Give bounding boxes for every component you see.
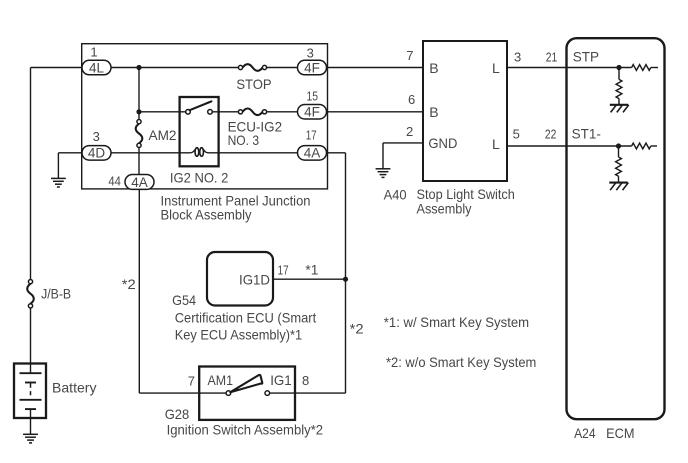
svg-text:Certification ECU (Smart: Certification ECU (Smart xyxy=(175,309,317,325)
svg-text:5: 5 xyxy=(513,126,520,141)
wire fuse to 4F 15 xyxy=(267,111,298,113)
svg-text:6: 6 xyxy=(408,92,415,107)
wire 4D to relay coil xyxy=(111,152,180,154)
wire AM2 vertical xyxy=(138,68,140,176)
fuse STOP xyxy=(238,64,266,71)
svg-text:*2: *2 xyxy=(350,320,364,336)
resistor STP horizontal xyxy=(632,65,658,71)
label A24 ECM xyxy=(574,425,634,441)
connector 4A pin 17 xyxy=(298,128,327,161)
svg-text:4F: 4F xyxy=(304,105,320,120)
label ECU-IG2 NO. 3 xyxy=(228,118,283,148)
label *2 left xyxy=(122,276,136,292)
junction dot IG1D wire xyxy=(343,277,348,282)
svg-text:B: B xyxy=(429,104,438,120)
wire 4F3 to stop light switch B7 xyxy=(327,67,424,69)
ground stop light switch xyxy=(376,169,391,178)
note *1 xyxy=(384,314,529,330)
connector 4L pin 1 xyxy=(82,45,111,76)
junction dot ST1- xyxy=(616,143,621,148)
connector 4F pin 15 xyxy=(298,88,327,119)
connector 4F pin 3 xyxy=(298,46,327,76)
svg-text:GND: GND xyxy=(428,135,457,151)
relay coil xyxy=(180,148,219,157)
svg-text:ST1-: ST1- xyxy=(572,127,601,142)
label Instrument Panel Junction Block Assembly xyxy=(161,192,311,222)
wire left vertical battery to 4L xyxy=(30,68,32,364)
ground (4D) xyxy=(51,153,83,187)
svg-text:AM2: AM2 xyxy=(149,127,177,143)
wire relay to ECU-IG2 fuse xyxy=(212,111,238,113)
wire 4F15 to stop light switch B6 xyxy=(327,111,424,113)
junction dot STP xyxy=(616,65,621,70)
svg-text:4L: 4L xyxy=(89,60,105,75)
resistor ST1- vertical to ground xyxy=(616,146,622,183)
svg-text:ECM: ECM xyxy=(606,425,634,441)
G54 Certification ECU box xyxy=(207,252,273,306)
svg-text:17: 17 xyxy=(278,263,289,278)
svg-text:L: L xyxy=(492,136,500,152)
relay switch contacts xyxy=(186,110,213,115)
svg-text:15: 15 xyxy=(307,88,319,103)
svg-text:*2: w/o Smart Key System: *2: w/o Smart Key System xyxy=(386,354,536,370)
label Battery xyxy=(52,380,97,396)
svg-text:STP: STP xyxy=(573,50,599,65)
wire row1 4L to STOP fuse xyxy=(111,67,238,69)
svg-text:*2: *2 xyxy=(122,276,136,292)
wire 4A17 right to vertical xyxy=(270,153,346,393)
wire STOP fuse to 4F xyxy=(267,67,298,69)
labels AM1 IG1 pins 7 8 xyxy=(188,372,309,388)
svg-text:4D: 4D xyxy=(88,146,106,161)
svg-text:G54: G54 xyxy=(172,292,196,308)
svg-text:IG1D: IG1D xyxy=(239,271,270,287)
svg-text:4F: 4F xyxy=(304,60,320,75)
wire row2 branch to relay xyxy=(139,111,186,113)
fuse ECU-IG2 NO. 3 xyxy=(238,109,266,116)
label AM2 xyxy=(149,127,177,143)
chassis ground ST1- xyxy=(609,183,628,191)
label G28 xyxy=(165,406,324,438)
svg-text:Block Assembly: Block Assembly xyxy=(161,207,252,223)
wire 44/4A down to ignition switch AM1 xyxy=(139,189,226,393)
G28 Ignition Switch Assembly box xyxy=(199,367,295,420)
connector 4A pin 44 xyxy=(108,173,154,190)
wire L5 to ECM ST1- xyxy=(507,145,632,147)
note *2 xyxy=(386,354,536,370)
ground battery xyxy=(23,434,38,443)
svg-text:A24: A24 xyxy=(574,425,596,441)
junction dot row1/AM2 xyxy=(136,65,141,70)
svg-text:IG1: IG1 xyxy=(270,372,292,388)
wire coil to 4A 17 xyxy=(219,152,298,154)
svg-text:1: 1 xyxy=(90,45,97,60)
wire IG1D pin 17 xyxy=(273,262,346,280)
svg-text:G28: G28 xyxy=(165,406,190,422)
Instrument Panel Junction Block Assembly box xyxy=(82,44,328,189)
connector 4D pin 3 xyxy=(82,129,111,161)
fuse AM2 xyxy=(136,120,143,148)
svg-text:22: 22 xyxy=(545,126,557,141)
svg-text:L: L xyxy=(492,60,500,76)
resistor ST1- horizontal xyxy=(632,143,657,149)
svg-text:Stop Light Switch: Stop Light Switch xyxy=(417,186,515,202)
svg-text:IG2 NO. 2: IG2 NO. 2 xyxy=(170,170,229,186)
chassis ground STP xyxy=(610,105,629,113)
svg-text:AM1: AM1 xyxy=(208,372,234,388)
svg-text:*1: *1 xyxy=(305,262,318,278)
svg-text:2: 2 xyxy=(406,124,413,139)
svg-text:4A: 4A xyxy=(304,146,321,161)
label IG2 NO. 2 xyxy=(170,170,229,186)
svg-text:7: 7 xyxy=(406,48,413,63)
svg-text:Key ECU Assembly)*1: Key ECU Assembly)*1 xyxy=(175,327,303,343)
relay IG2 NO. 2 box xyxy=(180,97,219,166)
svg-text:3: 3 xyxy=(514,49,521,64)
A40 Stop Light Switch Assembly box xyxy=(423,41,507,181)
pin labels stop light switch xyxy=(406,48,521,152)
svg-text:Assembly: Assembly xyxy=(417,201,472,217)
svg-text:17: 17 xyxy=(306,128,317,143)
svg-text:3: 3 xyxy=(93,129,100,144)
svg-text:NO. 3: NO. 3 xyxy=(228,132,260,148)
svg-text:Battery: Battery xyxy=(52,380,97,396)
svg-text:21: 21 xyxy=(546,49,558,64)
label G54 xyxy=(172,292,316,343)
wire GND pin2 to ground xyxy=(383,143,423,169)
ignition switch contacts xyxy=(226,391,270,396)
svg-text:A40: A40 xyxy=(384,186,407,202)
svg-text:B: B xyxy=(429,60,438,76)
svg-text:Ignition Switch Assembly*2: Ignition Switch Assembly*2 xyxy=(167,421,324,437)
label *2 right xyxy=(350,320,364,336)
svg-text:7: 7 xyxy=(188,373,195,388)
junction dot AM2/relay branch xyxy=(136,109,141,114)
svg-text:STOP: STOP xyxy=(236,76,271,92)
relay switch blade xyxy=(190,101,212,110)
svg-text:3: 3 xyxy=(307,46,314,61)
ignition switch blade xyxy=(230,375,262,392)
labels 21 22 xyxy=(545,49,557,141)
resistor STP vertical to ground xyxy=(616,68,622,105)
svg-text:*1: w/ Smart Key System: *1: w/ Smart Key System xyxy=(384,314,529,330)
svg-text:8: 8 xyxy=(302,373,309,388)
label A40 Stop Light Switch Assembly xyxy=(384,186,515,217)
svg-text:44: 44 xyxy=(108,173,121,188)
fusible link J/B-B xyxy=(27,280,34,309)
label STOP xyxy=(236,76,271,92)
labels STP ST1- xyxy=(572,50,601,142)
label J/B-B xyxy=(41,286,71,302)
battery xyxy=(14,364,46,435)
svg-text:4A: 4A xyxy=(131,175,148,190)
wire L3 to ECM STP xyxy=(507,67,632,69)
wire battery feed: 4L left stub xyxy=(31,67,84,69)
svg-text:J/B-B: J/B-B xyxy=(41,286,71,302)
A24 ECM box xyxy=(567,38,665,419)
